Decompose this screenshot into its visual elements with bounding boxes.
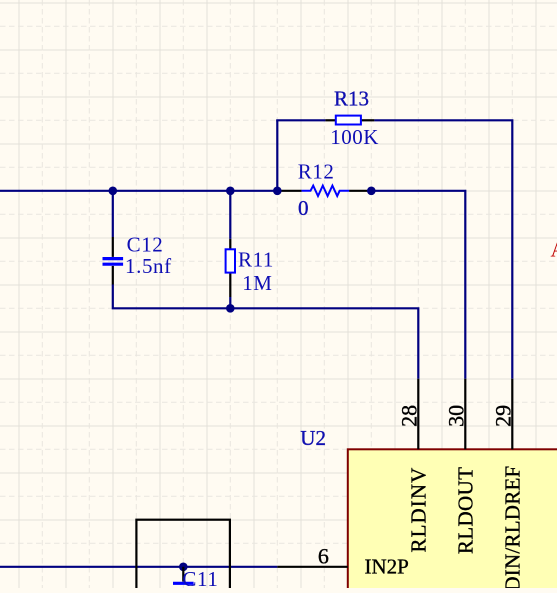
svg-text:R13: R13 — [334, 86, 369, 110]
wire: R11 top lead from main net — [229, 191, 231, 239]
capacitor C12 (1.5nf) — [103, 237, 124, 285]
wire: C12 top lead from main net — [112, 191, 114, 237]
svg-text:28: 28 — [396, 405, 421, 427]
svg-text:29: 29 — [490, 405, 515, 427]
svg-text:A: A — [551, 238, 557, 262]
resistor R13 (100K, IEC box style) — [325, 116, 374, 125]
pin 30 of U2 (RLDOUT) — [464, 379, 466, 450]
capacitor C11 (top lead and first plate) — [173, 567, 194, 584]
svg-text:100K: 100K — [330, 125, 379, 149]
junction: C11 top node — [179, 563, 188, 572]
junction: R11 top node — [226, 187, 235, 196]
junction: R12 pin1 node — [273, 187, 282, 196]
svg-text:R11: R11 — [238, 248, 274, 272]
svg-text:1M: 1M — [242, 271, 272, 295]
wire: R13 left segment — [276, 119, 325, 121]
svg-text:30: 30 — [443, 405, 468, 427]
electrode box around C11 — [136, 520, 230, 593]
svg-text:C12: C12 — [127, 233, 164, 257]
svg-text:0: 0 — [298, 196, 309, 220]
svg-text:RLDINV: RLDINV — [406, 467, 430, 553]
wire: bottom rail from C12 across to pin 28 drop — [113, 285, 419, 379]
wire: R12 output over to pin 30 drop — [371, 191, 465, 379]
svg-text:U2: U2 — [300, 426, 326, 450]
junction: R12 pin2 node — [367, 187, 376, 196]
svg-text:1.5nf: 1.5nf — [125, 254, 172, 278]
pin 29 of U2 (RLDIN/RLDREF) — [511, 379, 513, 450]
wire: bottom net (left edge to pin 6) — [0, 566, 277, 568]
IC U2 body — [348, 449, 557, 593]
wire: R13 right segment over to pin 29 drop — [374, 120, 512, 379]
svg-text:RLDOUT: RLDOUT — [453, 467, 477, 555]
svg-text:IN2P: IN2P — [365, 555, 409, 579]
svg-text:RLDIN/RLDREF: RLDIN/RLDREF — [500, 466, 524, 589]
svg-text:C11: C11 — [182, 567, 218, 588]
resistor R11 (1M, vertical box) — [226, 239, 235, 297]
resistor R12 (0 ohm, zigzag) — [277, 186, 371, 196]
junction: R11 bottom node — [226, 304, 235, 313]
wire: R11 bottom lead to bottom rail — [229, 297, 231, 308]
svg-text:R12: R12 — [298, 159, 335, 183]
wire: main horizontal net (left edge to R12 pin 1) — [0, 190, 277, 192]
wire: feedback riser from R12 node up to R13 row — [276, 120, 278, 192]
pin 6 of U2 (IN2P) — [277, 566, 348, 568]
svg-text:6: 6 — [318, 544, 329, 569]
pin 28 of U2 (RLDINV) — [417, 379, 419, 450]
junction: C12 top node — [109, 187, 118, 196]
